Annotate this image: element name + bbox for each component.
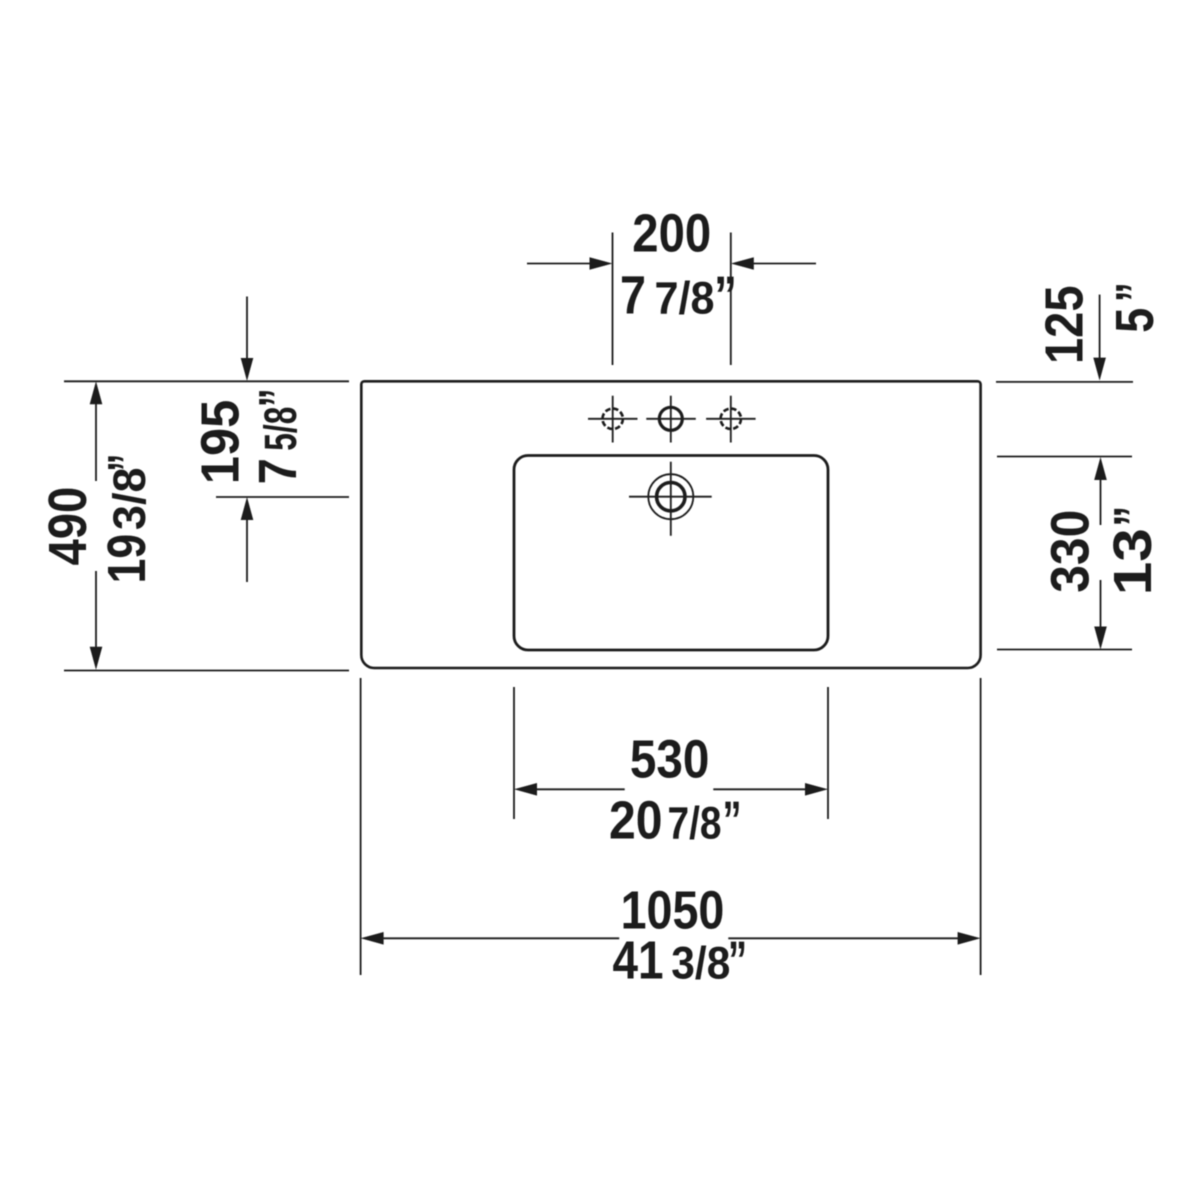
- dim 200 right extension line: [730, 233, 732, 366]
- dim 1050 left extension line: [360, 678, 362, 975]
- dim 330 bottom arrowhead (down): [1094, 627, 1107, 650]
- dim 530 left shaft: [536, 788, 625, 790]
- svg-text:125: 125: [1036, 286, 1095, 365]
- dim 490 bottom extension line: [64, 670, 349, 672]
- dim 530 right arrowhead: [805, 783, 828, 796]
- dim 330 upper shaft: [1100, 479, 1102, 526]
- dim 200 left extension line: [612, 233, 614, 366]
- svg-text:7: 7: [620, 266, 646, 325]
- dim 195 upper arrow shaft: [246, 297, 248, 360]
- dim 490 top extension line: [64, 380, 349, 382]
- faucet hole right (dashed): [721, 409, 741, 429]
- svg-text:330: 330: [1041, 510, 1100, 593]
- svg-text:530: 530: [630, 730, 710, 789]
- dim 530 left arrowhead: [514, 783, 537, 796]
- dim 195 lower arrowhead (up): [241, 497, 254, 520]
- svg-text:5: 5: [1106, 308, 1165, 333]
- dim 1050 right arrowhead: [958, 932, 981, 945]
- svg-text:20: 20: [609, 792, 663, 851]
- dim 330 lower shaft: [1100, 580, 1102, 628]
- dim 530 left extension line: [513, 687, 515, 819]
- label 13 inch (rotated): [1104, 506, 1163, 596]
- svg-text:490: 490: [39, 487, 98, 566]
- dim 490 top arrowhead (up): [90, 381, 103, 404]
- dim 200 left arrow shaft: [527, 263, 592, 265]
- svg-text:5/8: 5/8: [255, 407, 306, 451]
- washbasin outer outline: [361, 381, 980, 668]
- svg-text:7: 7: [249, 458, 308, 484]
- tank top right extension line: [996, 381, 1133, 383]
- drain inner circle: [657, 483, 685, 511]
- svg-text:195: 195: [192, 400, 251, 485]
- dim 530 right extension line: [827, 687, 829, 819]
- dim 125 arrowhead (down): [1093, 358, 1106, 381]
- label 41 3/8 inch: [613, 931, 748, 990]
- dim 1050 right extension line: [980, 678, 982, 975]
- svg-text:”: ”: [714, 266, 737, 325]
- svg-text:19: 19: [98, 534, 157, 584]
- faucet hole center: [659, 407, 682, 430]
- dim 1050 right shaft: [728, 937, 958, 939]
- svg-text:”: ”: [723, 792, 742, 851]
- basin bottom right extension line: [997, 649, 1132, 651]
- svg-text:”: ”: [728, 931, 747, 990]
- drain outer circle: [648, 474, 693, 519]
- dim 1050 left arrowhead: [361, 932, 384, 945]
- dim 195 lower arrow shaft: [246, 519, 248, 582]
- dim 530 right shaft: [713, 788, 806, 790]
- dim 490 lower shaft: [95, 571, 97, 648]
- basin top right extension line: [997, 456, 1132, 458]
- svg-text:3/8: 3/8: [671, 937, 730, 988]
- dim 200 left arrowhead: [590, 257, 613, 270]
- label 19 3/8 inch (rotated): [98, 454, 157, 584]
- dim 490 bottom arrowhead (down): [90, 647, 103, 670]
- drain crosshair: [629, 462, 712, 536]
- svg-text:7/8: 7/8: [668, 798, 722, 849]
- svg-text:”: ”: [249, 388, 308, 407]
- svg-text:7/8: 7/8: [655, 272, 715, 323]
- svg-text:3/8: 3/8: [104, 468, 155, 531]
- faucet hole center crosshair: [646, 396, 696, 443]
- dim 200 right arrowhead: [731, 257, 754, 270]
- label 7 7/8 inch: [620, 266, 737, 325]
- dim 490 upper shaft: [95, 403, 97, 481]
- svg-text:13: 13: [1104, 528, 1163, 595]
- dim 125 arrow shaft: [1099, 295, 1101, 359]
- dim 330 top arrowhead (up): [1094, 457, 1107, 480]
- svg-text:”: ”: [1106, 282, 1165, 302]
- dim 200 right arrow shaft: [752, 263, 816, 265]
- dim 1050 left shaft: [383, 937, 620, 939]
- faucet hole left crosshair: [588, 396, 638, 443]
- label 5 inch (rotated): [1106, 282, 1165, 333]
- svg-text:41: 41: [613, 931, 664, 990]
- dim 195 upper arrowhead (down): [241, 358, 254, 381]
- faucet hole left (dashed): [603, 409, 623, 429]
- svg-text:”: ”: [98, 454, 157, 472]
- inner basin outline: [514, 456, 828, 651]
- faucet hole right crosshair: [706, 396, 756, 443]
- drain centerline extension: [216, 496, 349, 498]
- label 7 5/8 inch (rotated): [249, 388, 308, 484]
- svg-text:”: ”: [1104, 506, 1163, 527]
- svg-text:200: 200: [632, 205, 711, 264]
- label 20 7/8 inch: [609, 792, 742, 851]
